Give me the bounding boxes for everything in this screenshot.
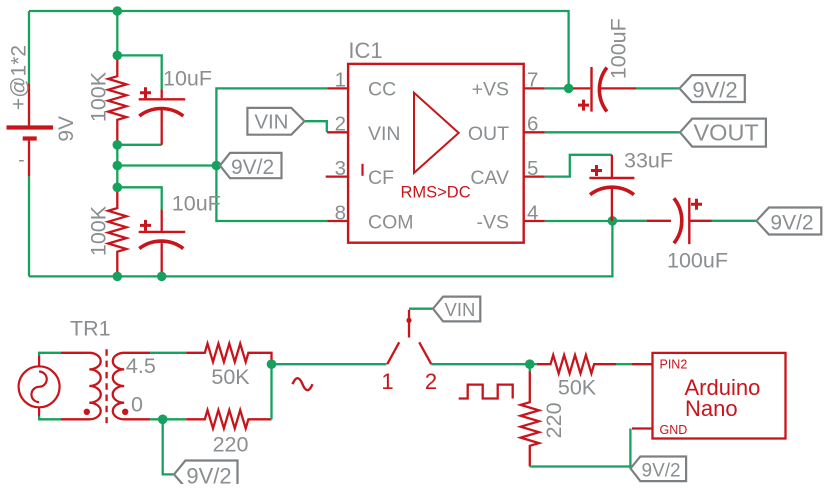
flag VIN bottom <box>433 297 480 322</box>
wire VIN to pin2 <box>305 121 327 132</box>
svg-text:VOUT: VOUT <box>694 120 759 146</box>
wire battery bottom <box>28 176 30 276</box>
svg-text:-VS: -VS <box>476 212 509 234</box>
IC1 left pin stubs <box>326 88 348 221</box>
Arduino pin stubs <box>632 364 653 428</box>
capacitor C5 10uF <box>139 210 186 277</box>
wire 50K to PIN2 <box>616 363 632 365</box>
svg-text:50K: 50K <box>211 365 250 389</box>
switch S1 <box>387 310 431 364</box>
wire cap C5 top <box>117 187 161 209</box>
svg-text:CF: CF <box>368 167 394 189</box>
wire 9V/2 drop left <box>163 419 174 474</box>
battery BAT 9V <box>7 84 54 176</box>
svg-text:-: - <box>18 150 24 171</box>
svg-text:VIN: VIN <box>445 299 476 320</box>
flag 9V/2 right pin4 <box>756 208 821 235</box>
svg-text:4.5: 4.5 <box>126 354 156 378</box>
junction dot 50K <box>267 359 277 369</box>
sine symbol <box>293 378 313 390</box>
svg-text:9V: 9V <box>55 116 78 142</box>
svg-text:1: 1 <box>335 69 346 92</box>
wire cap C1 bottom <box>117 144 161 146</box>
svg-text:50K: 50K <box>558 376 597 400</box>
wire left rail mid <box>116 145 118 188</box>
resistor R3 50K <box>186 344 271 362</box>
junction dot switch node <box>525 359 535 369</box>
wire pin6 VOUT net <box>545 131 680 133</box>
AC source G1 <box>19 356 60 416</box>
svg-text:CC: CC <box>368 79 396 101</box>
IC1 pin numbers <box>335 69 539 225</box>
op-amp triangle inside IC1 <box>414 93 459 173</box>
svg-text:10uF: 10uF <box>163 67 212 91</box>
flag VOUT <box>680 119 766 147</box>
svg-text:3: 3 <box>335 157 346 180</box>
resistor R6 220 vertical <box>521 372 539 467</box>
svg-text:1: 1 <box>381 369 393 394</box>
wire VIN to switch <box>409 308 433 310</box>
svg-text:220: 220 <box>213 433 249 457</box>
svg-text:9V/2: 9V/2 <box>231 156 274 179</box>
svg-text:9V/2: 9V/2 <box>770 212 813 235</box>
svg-text:7: 7 <box>527 69 538 92</box>
svg-text:33uF: 33uF <box>624 149 673 173</box>
flag VIN top <box>247 108 304 135</box>
wire cap C1 top <box>117 55 161 89</box>
svg-text:2: 2 <box>425 369 437 394</box>
svg-text:6: 6 <box>527 113 538 136</box>
flag 9V/2 mid-left <box>220 153 282 179</box>
svg-text:RMS>DC: RMS>DC <box>401 183 471 201</box>
junction dots top section <box>113 6 618 281</box>
svg-text:2: 2 <box>335 113 346 136</box>
CF tick mark <box>361 164 363 176</box>
wire pin1 CC net <box>216 88 327 221</box>
svg-text:100uF: 100uF <box>667 249 728 273</box>
IC1 box <box>348 64 524 243</box>
svg-text:VIN: VIN <box>254 110 288 133</box>
svg-text:IC1: IC1 <box>348 38 382 63</box>
wire 9V/2 tap <box>117 164 216 166</box>
flag 9V/2 bottom left <box>174 461 238 489</box>
svg-text:4: 4 <box>527 201 538 224</box>
wire pin4 net <box>545 220 757 222</box>
capacitor C3 33uF <box>589 155 634 221</box>
wire secondary top <box>150 353 186 420</box>
svg-text:100K: 100K <box>87 205 111 256</box>
capacitor C4 100uF bottom <box>647 198 712 244</box>
resistor R4 220 <box>186 410 271 428</box>
flag 9V/2 top right <box>680 75 745 102</box>
capacitor C1 10uF <box>139 87 186 145</box>
svg-text:Nano: Nano <box>685 396 738 421</box>
wire pin5 CAV net <box>545 155 612 177</box>
svg-text:9V/2: 9V/2 <box>642 460 681 481</box>
svg-text:220: 220 <box>542 402 566 438</box>
svg-text:8: 8 <box>335 201 346 224</box>
wire switch 2 to node <box>431 364 537 371</box>
svg-text:5: 5 <box>527 157 538 180</box>
svg-text:0: 0 <box>131 393 143 417</box>
svg-text:CAV: CAV <box>470 167 509 189</box>
svg-text:VIN: VIN <box>368 123 401 145</box>
resistor R2 100K <box>108 187 126 276</box>
wire battery top <box>28 11 30 84</box>
flag 9V/2 bottom right <box>631 457 687 482</box>
svg-text:TR1: TR1 <box>70 317 111 341</box>
IC1 right pin stubs <box>524 88 545 221</box>
wire pin7 net <box>545 87 680 89</box>
svg-text:GND: GND <box>660 423 688 437</box>
resistor R5 50K <box>537 355 616 373</box>
wire 50K/220 join <box>272 364 387 419</box>
svg-text:+@1*2: +@1*2 <box>8 45 31 110</box>
svg-text:OUT: OUT <box>468 123 509 145</box>
svg-text:10uF: 10uF <box>172 192 221 216</box>
square wave symbol <box>459 385 513 399</box>
wire top rail <box>29 11 569 88</box>
wire left rail upper <box>116 11 118 55</box>
wire bottom rail <box>29 221 612 277</box>
svg-text:100K: 100K <box>87 71 111 122</box>
svg-text:+VS: +VS <box>472 79 509 101</box>
transformer TR1 <box>61 349 150 423</box>
svg-text:9V/2: 9V/2 <box>692 77 737 102</box>
transformer phase dots <box>84 409 90 415</box>
switch pole dot <box>406 318 411 323</box>
junction dot secondary 0 <box>158 415 168 425</box>
wire bottom right rail <box>530 429 631 469</box>
resistor R1 100K <box>108 55 126 144</box>
svg-text:9V/2: 9V/2 <box>186 463 231 484</box>
Arduino Nano box <box>653 353 786 439</box>
svg-text:PIN2: PIN2 <box>660 358 688 372</box>
wire AC source top <box>39 353 61 420</box>
svg-text:COM: COM <box>368 212 414 234</box>
capacitor C2 100uF top right <box>573 67 636 112</box>
svg-text:100uF: 100uF <box>607 18 631 79</box>
IC1 pin names <box>368 79 509 234</box>
